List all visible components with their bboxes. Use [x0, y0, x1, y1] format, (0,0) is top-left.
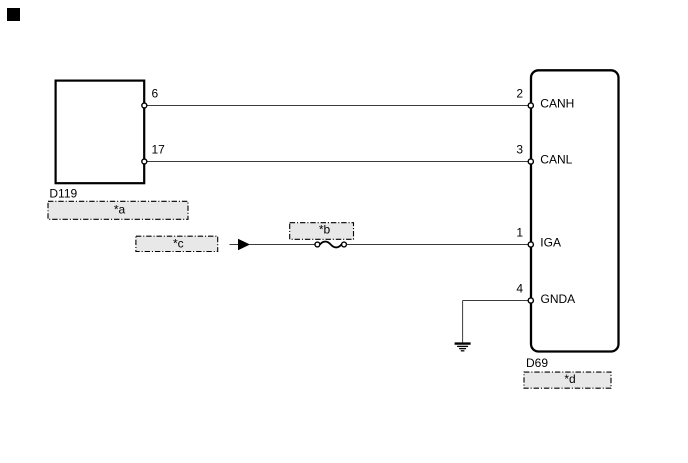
svg-text:6: 6 — [152, 87, 159, 101]
callout box *a — [48, 201, 188, 219]
callout box *c — [136, 236, 218, 251]
svg-text:1: 1 — [516, 226, 523, 240]
pin 6 terminal — [142, 103, 147, 108]
wire CANH — [147, 105, 530, 107]
svg-text:17: 17 — [152, 143, 166, 157]
wire — [249, 244, 315, 246]
fuse F (left terminal) — [315, 242, 320, 247]
svg-text:GNDA: GNDA — [541, 292, 576, 306]
wire CANL — [147, 161, 530, 163]
pin 2 terminal — [528, 103, 533, 108]
pin 17 terminal — [142, 159, 147, 164]
fuse F (right terminal) — [342, 242, 347, 247]
svg-text:4: 4 — [516, 282, 523, 296]
wire — [347, 244, 530, 246]
svg-text:*a: *a — [114, 203, 126, 217]
svg-text:D69: D69 — [526, 356, 548, 370]
svg-text:*c: *c — [173, 236, 184, 250]
svg-text:CANL: CANL — [540, 152, 572, 166]
fuse element — [320, 242, 342, 248]
wire IGA stub — [230, 244, 240, 246]
svg-text:D119: D119 — [49, 187, 77, 201]
svg-text:*d: *d — [564, 372, 575, 386]
svg-text:CANH: CANH — [540, 96, 574, 110]
callout box *d — [524, 372, 611, 388]
ground — [455, 344, 471, 351]
wire GNDA horizontal — [463, 300, 529, 302]
source arrow — [238, 239, 250, 250]
svg-text:*b: *b — [319, 223, 331, 237]
svg-text:2: 2 — [516, 87, 523, 101]
corner marker square — [7, 8, 20, 21]
wire GNDA vertical — [462, 301, 464, 343]
callout box *b — [290, 223, 354, 240]
pin 3 terminal — [528, 159, 533, 164]
svg-text:IGA: IGA — [540, 235, 561, 249]
svg-text:3: 3 — [516, 143, 523, 157]
connector D119 — [56, 81, 145, 184]
pin 1 terminal — [528, 242, 533, 247]
pin 4 terminal — [528, 298, 533, 303]
connector D69 — [531, 70, 619, 351]
